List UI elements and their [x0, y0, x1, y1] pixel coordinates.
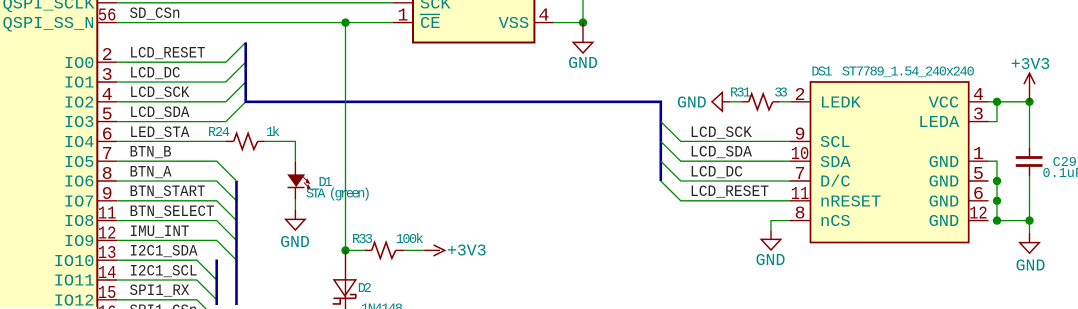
svg-text:IO6: IO6 — [64, 174, 95, 193]
wire SD_CSn — [117, 22, 393, 24]
svg-text:+3V3: +3V3 — [1011, 55, 1051, 74]
svg-text:GND: GND — [568, 54, 598, 73]
bus LCD (bus1) — [246, 42, 661, 181]
wire R33 to +3V3 — [405, 249, 425, 251]
svg-text:LCD_SCK: LCD_SCK — [130, 84, 191, 102]
svg-text:6: 6 — [102, 124, 113, 145]
wire C29 down to GND node — [1029, 176, 1031, 221]
wire node to R33 — [346, 249, 365, 251]
U? pin numbers — [98, 6, 117, 309]
svg-text:56: 56 — [98, 6, 117, 27]
svg-text:GND: GND — [929, 213, 960, 232]
ground GND (flash) — [568, 23, 598, 73]
svg-text:IMU_INT: IMU_INT — [130, 223, 190, 241]
svg-text:4: 4 — [102, 85, 113, 106]
canvas edge strip — [0, 307, 97, 309]
ground GND (D1) — [280, 209, 310, 252]
wire LEDA up — [989, 102, 998, 122]
wire LCD_RESET — [117, 42, 246, 62]
svg-text:IO2: IO2 — [64, 94, 95, 113]
svg-text:BTN_A: BTN_A — [130, 163, 173, 181]
svg-text:IO10: IO10 — [54, 253, 95, 272]
LED D1 — [288, 162, 372, 203]
svg-text:GND: GND — [1016, 256, 1046, 275]
svg-text:1N4148: 1N4148 — [361, 303, 403, 309]
junction (VSS node) — [579, 18, 587, 26]
svg-text:IO9: IO9 — [64, 233, 95, 252]
flash pin numbers — [397, 6, 549, 27]
svg-text:nCS: nCS — [820, 213, 851, 232]
wire LCD_SCK (to DS1) — [661, 122, 790, 142]
svg-text:R33: R33 — [352, 233, 373, 248]
svg-text:VCC: VCC — [929, 94, 960, 113]
IC DS1 ST7789 display — [811, 82, 969, 243]
wire VSS to GND node — [553, 22, 583, 24]
svg-text:8: 8 — [102, 164, 113, 185]
IC U? RP2040 (left, partially visible) — [0, 0, 97, 309]
svg-text:IO8: IO8 — [64, 213, 95, 232]
svg-text:R31: R31 — [730, 86, 751, 101]
IC U? SPI flash (top, partially visible) — [413, 0, 534, 43]
wire SD_CSn vertical drop — [345, 23, 347, 251]
junction (GND pin12) — [993, 216, 1001, 224]
svg-text:QSPI_SS_N: QSPI_SS_N — [3, 15, 95, 34]
svg-text:13: 13 — [98, 243, 117, 264]
svg-text:SCL: SCL — [820, 134, 851, 153]
svg-text:CE: CE — [420, 15, 440, 34]
wire BTN_START — [117, 201, 236, 221]
wire BTN_B — [117, 161, 236, 181]
svg-text:5: 5 — [973, 164, 984, 185]
svg-text:nRESET: nRESET — [820, 193, 881, 212]
svg-text:11: 11 — [791, 184, 810, 205]
svg-text:7: 7 — [102, 144, 113, 165]
svg-text:IO4: IO4 — [64, 134, 95, 153]
svg-text:IO3: IO3 — [64, 114, 95, 133]
wire GND flag to R31 — [730, 101, 742, 103]
resistor R33 — [352, 233, 424, 258]
svg-text:8: 8 — [794, 204, 805, 225]
svg-text:0.1uF: 0.1uF — [1043, 167, 1078, 182]
svg-text:ST7789_1.54_240x240: ST7789_1.54_240x240 — [842, 65, 975, 80]
power +3V3 (right-pointing) — [424, 242, 487, 261]
pin stub LEDK — [791, 101, 811, 103]
svg-text:1k: 1k — [266, 126, 280, 141]
junction (LEDA/VCC) — [993, 98, 1001, 106]
junction (GND pin5) — [993, 177, 1001, 185]
wire IMU_INT — [117, 240, 236, 260]
svg-text:IO1: IO1 — [64, 75, 95, 94]
junction (+3V3 line) — [1025, 98, 1033, 106]
svg-text:9: 9 — [794, 124, 805, 145]
svg-text:4: 4 — [973, 85, 984, 106]
svg-text:LCD_RESET: LCD_RESET — [130, 45, 206, 63]
resistor R24 — [208, 126, 280, 150]
svg-text:IO0: IO0 — [64, 55, 95, 74]
svg-text:11: 11 — [98, 204, 117, 225]
power GND flag (R31) — [677, 93, 730, 113]
power +3V3 (top right) — [1011, 55, 1051, 102]
flash pin names — [420, 0, 529, 34]
wire node to D2 — [345, 250, 347, 280]
svg-text:IO7: IO7 — [64, 193, 95, 212]
wire VCC to +3V3 line — [989, 101, 1030, 103]
wire R31 to LEDK pin — [780, 101, 791, 103]
wire I2C1_SDA — [117, 260, 217, 280]
svg-text:I2C1_SDA: I2C1_SDA — [130, 243, 199, 261]
svg-text:9: 9 — [102, 184, 113, 205]
svg-text:I2C1_SCL: I2C1_SCL — [130, 262, 198, 280]
svg-text:GND: GND — [756, 251, 786, 270]
svg-text:SD_CSn: SD_CSn — [130, 5, 181, 23]
svg-text:GND: GND — [929, 154, 960, 173]
svg-text:2: 2 — [794, 85, 805, 106]
junction (GND pin6) — [993, 197, 1001, 205]
svg-text:5: 5 — [102, 105, 113, 126]
svg-text:1: 1 — [973, 144, 984, 165]
wire vertical into VSS node — [582, 0, 584, 23]
svg-text:QSPI_SCLK: QSPI_SCLK — [3, 0, 96, 14]
wire GND node down — [1029, 221, 1031, 233]
svg-text:3: 3 — [102, 65, 113, 86]
wire LCD_SDA (to DS1) — [661, 141, 790, 161]
svg-text:LCD_SDA: LCD_SDA — [130, 104, 191, 122]
U? pin stubs — [97, 3, 117, 300]
svg-text:LCD_SDA: LCD_SDA — [690, 144, 753, 162]
svg-text:BTN_B: BTN_B — [130, 144, 172, 162]
svg-text:LCD_SCK: LCD_SCK — [690, 124, 753, 142]
wire I2C1_SCL — [117, 280, 217, 300]
wire R24 to D1 — [265, 141, 296, 161]
svg-text:BTN_START: BTN_START — [130, 183, 206, 201]
svg-text:LCD_RESET: LCD_RESET — [690, 183, 769, 201]
wire QSPI_SCLK — [117, 2, 393, 4]
svg-text:1: 1 — [397, 6, 408, 27]
svg-text:GND: GND — [280, 233, 310, 252]
svg-text:LED_STA: LED_STA — [130, 124, 191, 142]
svg-text:LEDA: LEDA — [918, 114, 960, 133]
svg-text:IO5: IO5 — [64, 154, 95, 173]
svg-text:BTN_SELECT: BTN_SELECT — [130, 203, 215, 221]
wire LCD_SCK — [117, 82, 246, 102]
svg-text:SPI1_RX: SPI1_RX — [130, 282, 191, 300]
wire +3V3 line down to C29 — [1029, 102, 1031, 148]
svg-text:4: 4 — [538, 6, 549, 27]
bus BTN (bus2) — [235, 181, 238, 305]
svg-text:GND: GND — [929, 174, 960, 193]
svg-text:D2: D2 — [358, 282, 372, 297]
svg-text:GND: GND — [929, 193, 960, 212]
diode D2 — [333, 280, 403, 309]
svg-text:DS1: DS1 — [811, 65, 832, 80]
U? pin names — [3, 0, 96, 309]
svg-text:6: 6 — [973, 184, 984, 205]
wire GND pins chain — [989, 161, 1030, 220]
DS1 pin numbers — [791, 85, 988, 225]
DS1 reference + value — [811, 65, 974, 80]
svg-text:D/C: D/C — [820, 174, 851, 193]
junction (SD_CSn tap) — [341, 18, 349, 26]
wire BTN_A — [117, 181, 236, 201]
svg-text:STA (green): STA (green) — [306, 188, 371, 203]
svg-text:LCD_DC: LCD_DC — [690, 163, 743, 181]
bus I2C/SPI (bus3) — [215, 260, 218, 306]
wire BTN_SELECT — [117, 221, 236, 241]
junction (GND/C29) — [1025, 216, 1033, 224]
net labels (left) — [130, 5, 215, 309]
svg-text:12: 12 — [98, 223, 117, 244]
svg-text:16: 16 — [98, 303, 117, 309]
svg-text:100k: 100k — [396, 233, 424, 248]
svg-text:SCK: SCK — [420, 0, 451, 14]
svg-text:IO12: IO12 — [54, 292, 95, 309]
svg-text:SPI1_CSn: SPI1_CSn — [130, 302, 198, 309]
svg-text:14: 14 — [98, 263, 117, 284]
svg-text:7: 7 — [794, 164, 805, 185]
junction (R33/D2 node) — [341, 246, 349, 254]
wire LCD_DC (to DS1) — [661, 161, 790, 181]
svg-text:10: 10 — [791, 144, 810, 165]
wire nCS to GND — [771, 221, 789, 231]
wire LED_STA — [117, 140, 226, 142]
svg-text:3: 3 — [973, 105, 984, 126]
svg-text:12: 12 — [969, 204, 988, 225]
wire D1 to GND — [294, 200, 296, 210]
svg-text:R24: R24 — [208, 126, 230, 141]
resistor R31 — [730, 86, 788, 109]
DS1 pin stubs — [789, 102, 988, 221]
wire LCD_SDA — [117, 102, 246, 122]
net labels (DS1 side) — [690, 124, 769, 201]
wire LCD_DC — [117, 62, 246, 82]
DS1 pin names — [820, 94, 960, 232]
svg-text:2: 2 — [102, 45, 113, 66]
svg-text:VSS: VSS — [499, 15, 530, 34]
svg-text:33: 33 — [774, 86, 788, 101]
capacitor C29 — [1016, 148, 1078, 182]
svg-text:15: 15 — [98, 283, 117, 304]
svg-text:IO11: IO11 — [54, 273, 95, 292]
wire SPI1_RX — [117, 300, 217, 309]
wire LCD_RESET (to DS1) — [661, 181, 790, 201]
svg-text:LEDK: LEDK — [820, 94, 862, 113]
svg-text:LCD_DC: LCD_DC — [130, 64, 181, 82]
ground GND (nCS) — [756, 231, 786, 270]
flash pin stubs — [393, 3, 554, 23]
ground GND (DS1 right) — [1016, 233, 1046, 275]
svg-text:+3V3: +3V3 — [447, 242, 487, 261]
svg-text:GND: GND — [677, 93, 707, 112]
svg-text:SDA: SDA — [820, 154, 851, 173]
